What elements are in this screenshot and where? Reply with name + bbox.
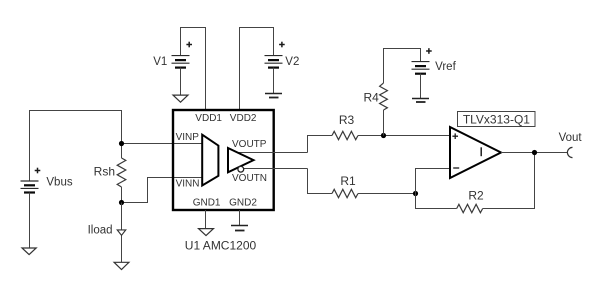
svg-text:Rsh: Rsh [94,164,115,178]
svg-text:R1: R1 [340,174,356,188]
svg-text:R3: R3 [339,113,355,127]
op-amp U2 triangle [450,127,501,178]
svg-text:U1 AMC1200: U1 AMC1200 [185,238,257,252]
svg-text:VOUTN: VOUTN [232,173,267,184]
wire: VOUTN to R1 [308,169,333,194]
wire: R1 to junction [358,193,416,195]
wire: Vbus top loop [30,111,122,182]
node: output junction [532,150,537,155]
wire: GND1 to ground [205,210,207,229]
svg-text:VDD1: VDD1 [195,113,222,124]
resistor R4 [380,83,388,136]
ground (V1, triangle) [173,95,188,102]
op-amp - input mark [453,167,459,169]
wire: Iload branch down [121,203,123,263]
current arrow Iload [117,230,126,236]
wire VINP node to box [122,143,203,145]
svg-text:VINP: VINP [176,132,200,143]
wire: R3 to op-amp + input [358,135,450,137]
ground (Vref, earth) [412,99,429,103]
wire: R2 to output node [483,153,535,209]
ground (Iload, triangle) [114,262,129,269]
svg-text:V1: V1 [153,56,167,68]
svg-text:GND1: GND1 [193,197,221,208]
svg-text:V2: V2 [285,56,299,68]
wire: V2 to ground [273,68,275,94]
svg-text:TLVx313-Q1: TLVx313-Q1 [463,112,530,126]
svg-text:R2: R2 [468,188,484,202]
ground (Vbus, triangle) [22,248,36,255]
wire: VOUTP to R3 [308,136,333,153]
wire: Vbus to ground [29,193,31,249]
node: R3/R4 junction [381,133,386,138]
isolation amplifier U1 box [173,110,274,210]
plus sign V2 [279,42,285,48]
wire: Vref to ground [420,74,422,99]
svg-text:Vout: Vout [559,132,583,144]
node: R1/R2/op-amp junction [413,191,418,196]
amplifier triangle inside U1 [228,148,254,172]
battery Vref [412,62,430,74]
wire: R4 to Vref [384,49,421,84]
svg-text:VINN: VINN [176,178,200,189]
svg-text:GND2: GND2 [229,197,257,208]
wire: V1 to ground [180,68,182,96]
svg-text:VDD2: VDD2 [230,113,257,124]
wire VOUTP inside box [236,152,308,154]
svg-text:R4: R4 [363,91,379,105]
plus sign Vbus [35,168,41,174]
modulator trapezoid inside U1 [202,135,218,186]
label box TLVx313-Q1 [458,112,536,127]
wire: V1 branch to VDD1 [181,28,206,111]
svg-text:Vbus: Vbus [46,177,72,189]
resistor R1 [332,189,358,197]
battery V1 [172,56,190,68]
wire: Rsh bottom to VINN path [122,178,203,203]
resistor R2 [457,204,483,212]
svg-text:VOUTP: VOUTP [232,139,267,150]
resistor Rsh [117,158,126,187]
plus sign Vref [426,48,432,54]
op-amp + input mark [452,133,458,139]
svg-text:Vref: Vref [435,61,456,73]
wire: junction down to R2 [416,194,457,209]
op-amp channel bar [480,147,482,156]
ground (GND2, earth) [231,226,248,231]
plus sign V1 [186,42,192,48]
resistor R3 [332,131,358,139]
inversion bubble on VOUTN [238,166,244,172]
ground (GND1, triangle) [199,229,214,236]
wire VOUTN inside box [234,168,308,170]
node: Rsh bottom junction [119,200,124,205]
ground (V2, earth) [265,94,282,98]
wire: junction to op-amp - input [416,169,451,194]
terminal Vout arc [567,147,572,157]
battery V2 [265,56,283,68]
wire: op-amp output [501,152,567,154]
svg-text:Iload: Iload [88,225,113,237]
wire: GND2 to ground [239,210,241,226]
node: Rsh top junction [119,141,124,146]
wire: V2 branch to VDD2 [240,28,274,111]
battery Vbus [21,181,39,193]
